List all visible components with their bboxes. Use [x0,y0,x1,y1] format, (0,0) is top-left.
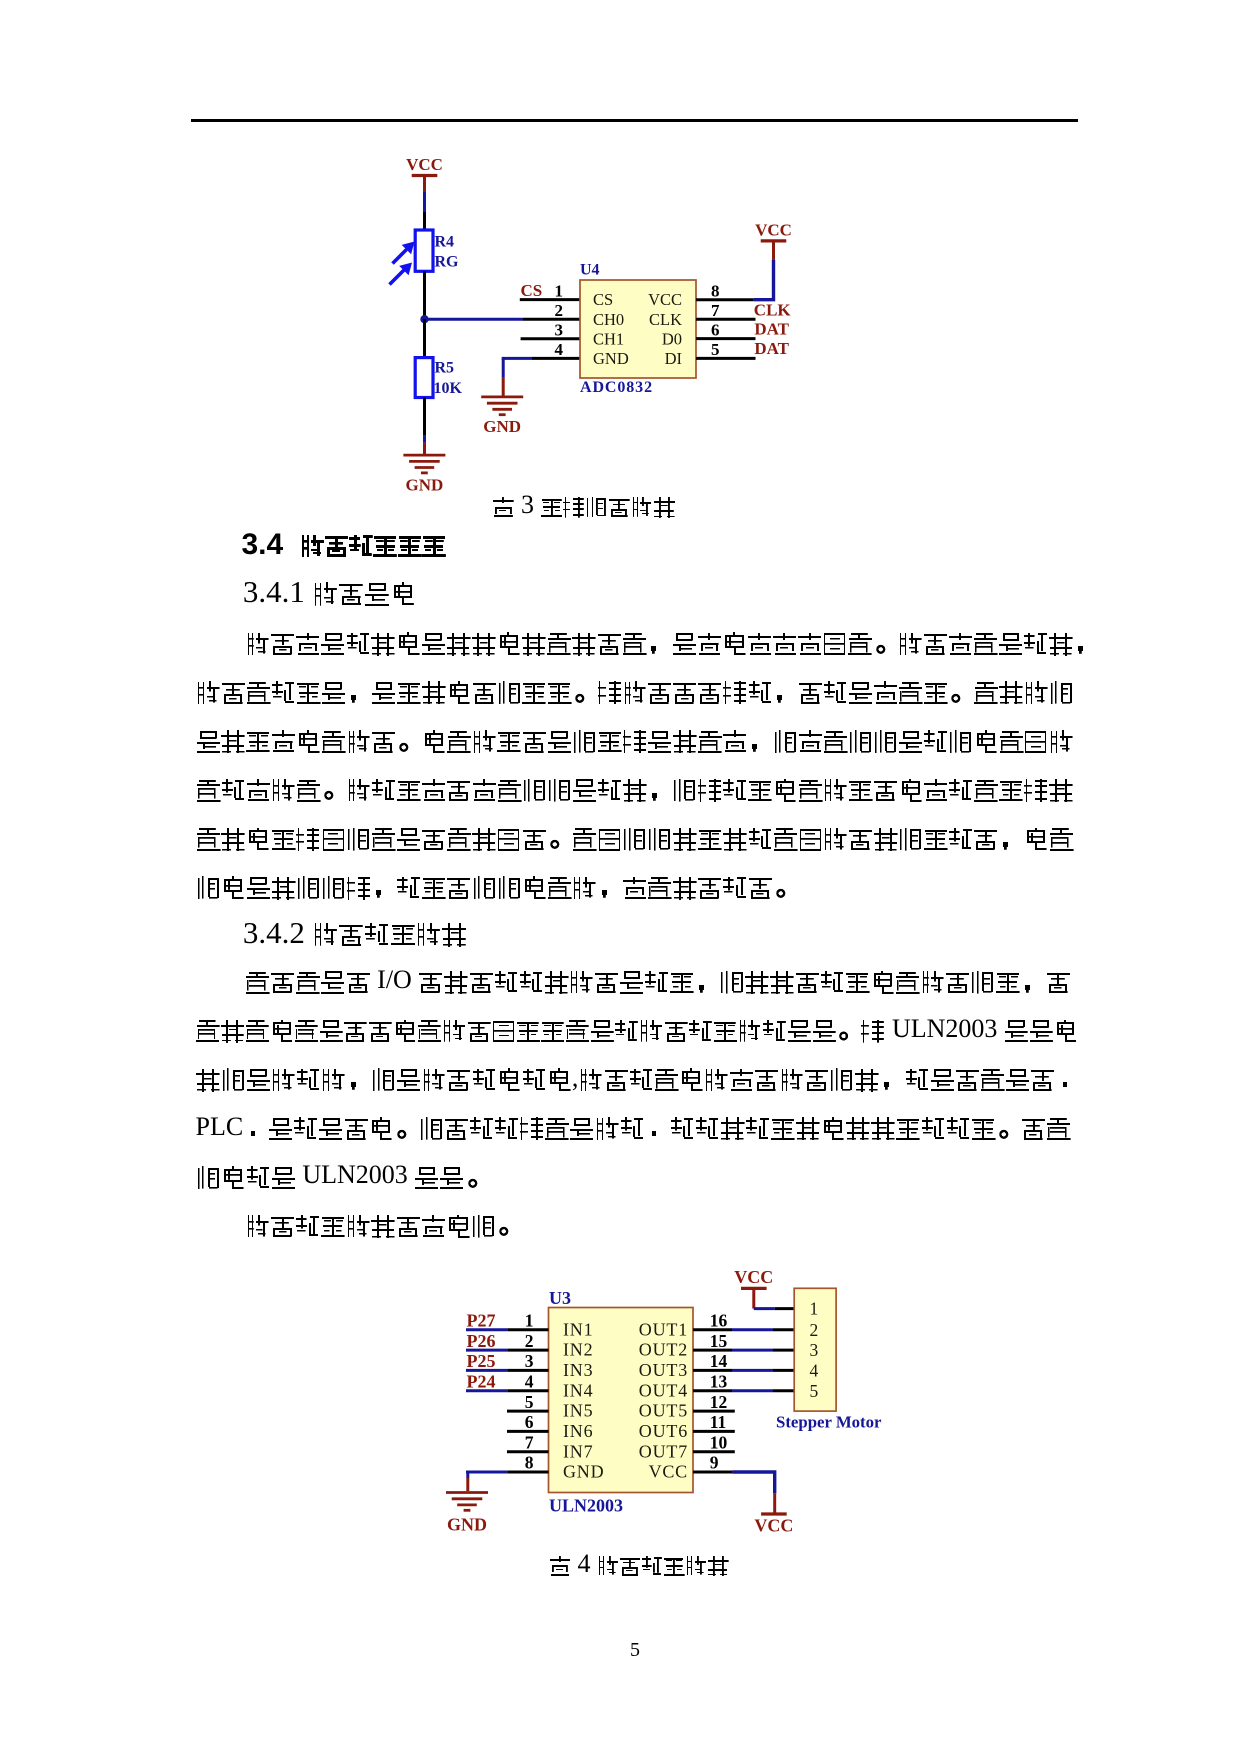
svg-text:16: 16 [710,1311,728,1331]
svg-text:CH0: CH0 [593,310,624,329]
resistor R5 10K [415,358,462,398]
U3 pin 14 wire to stepper motor pin 4 [693,1351,794,1371]
svg-text:OUT1: OUT1 [639,1319,688,1339]
svg-text:OUT2: OUT2 [639,1340,688,1360]
svg-text:7: 7 [711,301,720,320]
svg-text:GND: GND [406,475,444,494]
svg-text:8: 8 [711,281,720,300]
svg-text:10K: 10K [434,380,463,397]
U3 pin 5 wire [507,1392,549,1412]
U3 pin 13 wire to stepper motor pin 5 [693,1372,794,1392]
U3 pin 8 wire to ground [466,1453,549,1491]
svg-text:VCC: VCC [734,1267,773,1287]
svg-text:10: 10 [710,1432,728,1452]
svg-text:CLK: CLK [649,310,682,329]
U4 pin 2 wire [523,301,580,320]
svg-text:8: 8 [525,1453,534,1473]
header rule [191,119,1078,122]
svg-text:5: 5 [711,340,720,359]
svg-text:3: 3 [555,321,564,340]
U3 pin 6 wire [507,1412,549,1432]
wire R4 to node A [423,271,426,319]
svg-text:IN2: IN2 [563,1340,593,1360]
svg-text:4: 4 [555,340,564,359]
U3 pin 10 wire [693,1432,735,1452]
svg-text:GND: GND [447,1515,487,1535]
svg-text:OUT6: OUT6 [639,1421,688,1441]
svg-text:5: 5 [810,1381,819,1401]
U4 pin 1 wire [520,281,580,300]
U4 pin 3 wire [521,321,580,340]
svg-text:11: 11 [710,1412,727,1432]
ground GND (U4 pin 4) [481,397,523,436]
svg-text:ULN2003: ULN2003 [549,1496,623,1516]
svg-text:VCC: VCC [755,220,792,239]
svg-text:ADC0832: ADC0832 [580,379,653,396]
svg-text:15: 15 [710,1331,728,1351]
svg-text:DI: DI [665,349,682,368]
svg-text:U3: U3 [549,1288,571,1308]
wire R5 to ground [423,398,426,456]
svg-text:U4: U4 [580,262,600,279]
power VCC (stepper motor pin 1) [734,1267,773,1309]
wire node A to U4 pin 2 [425,318,524,321]
svg-text:4: 4 [810,1360,819,1380]
svg-text:2: 2 [525,1331,534,1351]
svg-text:OUT3: OUT3 [639,1360,688,1380]
svg-text:VCC: VCC [648,290,682,309]
svg-text:6: 6 [525,1412,534,1432]
svg-text:IN4: IN4 [563,1380,593,1400]
svg-text:P24: P24 [467,1372,496,1392]
svg-text:3: 3 [525,1351,534,1371]
power VCC (U4 pin 8) [755,220,792,241]
svg-text:2: 2 [555,301,564,320]
svg-text:3: 3 [810,1340,819,1360]
svg-text:P26: P26 [467,1331,496,1351]
svg-text:DAT: DAT [754,320,789,339]
U3 pin 11 wire [693,1412,735,1432]
wire VCC to R4 [423,192,426,231]
svg-text:P27: P27 [467,1311,496,1331]
U4 pin 5 wire, net DAT [696,339,790,359]
svg-text:4: 4 [525,1372,534,1392]
op-amp U4 ADC0832 chip body [580,262,696,397]
svg-text:5: 5 [525,1392,534,1412]
svg-text:1: 1 [810,1299,819,1319]
U3 pin 3 wire, net P25 [466,1351,549,1371]
U3 pin 1 wire, net P27 [466,1311,549,1331]
svg-text:1: 1 [525,1311,534,1331]
U3 pin 16 wire to stepper motor pin 2 [693,1311,794,1331]
U3 pin 9 wire to VCC [693,1453,775,1513]
U3 pin 4 wire, net P24 [466,1372,549,1392]
svg-text:VCC: VCC [754,1516,793,1536]
connector J1 Stepper Motor [776,1288,882,1431]
svg-text:7: 7 [525,1432,534,1452]
wire VCC to stepper motor pin 1 [754,1307,794,1310]
U3 pin 7 wire [507,1432,549,1452]
svg-text:R4: R4 [435,234,455,251]
svg-text:OUT4: OUT4 [639,1380,688,1400]
U4 pin 4 wire to ground [502,340,580,396]
svg-text:1: 1 [555,281,564,300]
chip U3 ULN2003 body [549,1288,694,1516]
wire node A to R5 [423,319,426,357]
svg-text:14: 14 [710,1351,728,1371]
ground GND (below R5) [403,455,445,494]
svg-text:P25: P25 [467,1351,496,1371]
svg-text:OUT5: OUT5 [639,1401,688,1421]
svg-text:CS: CS [521,281,543,300]
power VCC (top of R4) [406,155,443,192]
page number [630,1642,640,1665]
svg-text:RG: RG [435,254,460,271]
U3 pin 12 wire [693,1392,735,1412]
node A junction [420,315,428,323]
U3 pin 15 wire to stepper motor pin 3 [693,1331,794,1351]
svg-text:D0: D0 [662,329,682,348]
U3 pin 2 wire, net P26 [466,1331,549,1351]
svg-text:VCC: VCC [649,1462,688,1482]
photoresistor R4 RG [390,230,460,285]
svg-text:13: 13 [710,1372,728,1392]
U4 pin 8 wire to VCC [696,241,774,300]
svg-text:Stepper Motor: Stepper Motor [776,1413,882,1432]
svg-text:IN1: IN1 [563,1319,593,1339]
svg-text:6: 6 [711,320,720,339]
svg-text:CS: CS [593,290,613,309]
svg-text:OUT7: OUT7 [639,1441,688,1461]
svg-text:IN5: IN5 [563,1401,593,1421]
svg-text:GND: GND [483,417,521,436]
svg-text:IN7: IN7 [563,1441,593,1461]
svg-text:GND: GND [563,1462,604,1482]
svg-text:DAT: DAT [754,339,789,358]
svg-text:9: 9 [710,1453,719,1473]
net label CS [521,281,543,300]
svg-text:CLK: CLK [754,301,792,320]
svg-text:CH1: CH1 [593,329,624,348]
ground GND (U3 pin 8) [446,1493,488,1535]
svg-text:12: 12 [710,1392,728,1412]
svg-text:IN6: IN6 [563,1421,593,1441]
svg-text:GND: GND [593,349,629,368]
svg-text:VCC: VCC [406,155,443,174]
power VCC (U3 pin 9, below) [754,1514,793,1536]
U4 pin 7 wire, net CLK [696,301,791,320]
svg-text:2: 2 [810,1320,819,1340]
U4 pin 6 wire, net DAT [696,320,790,340]
svg-text:R5: R5 [435,360,455,377]
svg-text:IN3: IN3 [563,1360,593,1380]
